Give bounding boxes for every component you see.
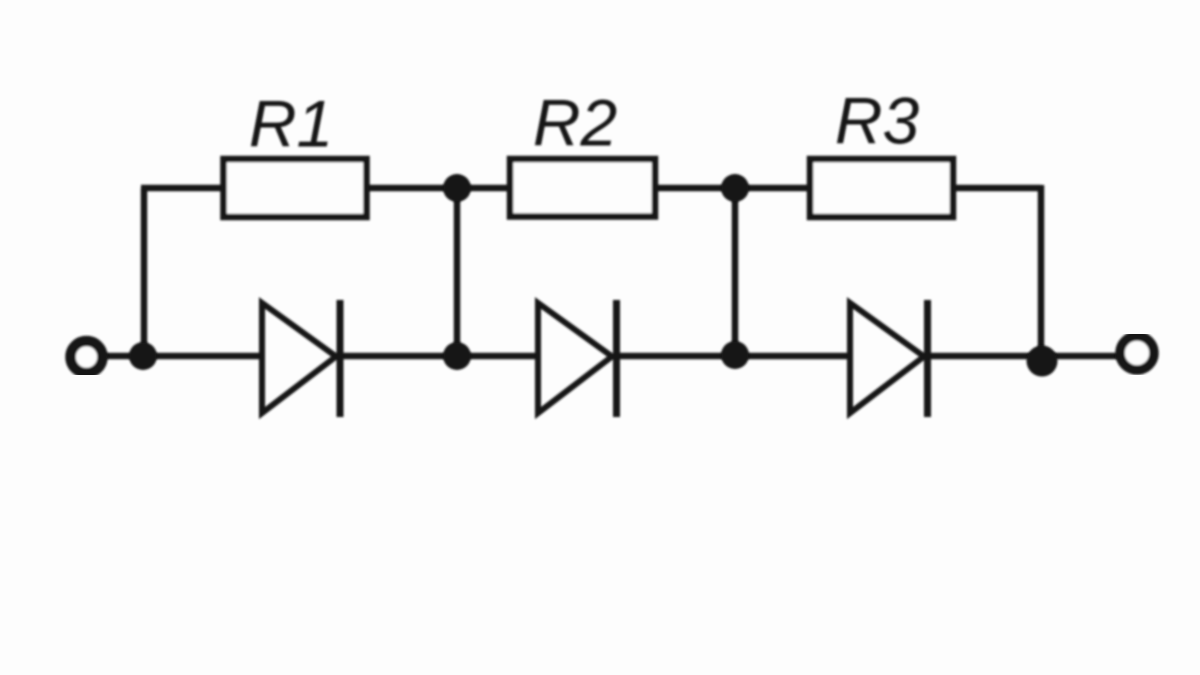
terminal right — [1120, 336, 1154, 370]
wire left riser — [141, 188, 148, 356]
svg-text:R1: R1 — [249, 87, 333, 161]
node dot top A — [443, 174, 471, 202]
wire bottom: D2 to D3 — [613, 353, 852, 360]
svg-text:R3: R3 — [835, 84, 920, 158]
wire bottom: D1 to D2 — [336, 353, 540, 360]
node dot bottom right — [1027, 346, 1058, 377]
wire R1 to R2 — [366, 185, 510, 192]
wire R3 to right corner — [953, 185, 1041, 192]
node dot bottom A — [443, 342, 471, 370]
wire bottom: terminal to D1 — [103, 353, 262, 360]
wire middle riser B — [732, 188, 739, 356]
diode D2 — [538, 303, 612, 413]
node dot bottom B — [721, 341, 749, 369]
diode D3 — [850, 303, 924, 413]
diode D1 — [262, 303, 336, 413]
wire bottom: D3 to right terminal — [925, 353, 1120, 360]
svg-text:R2: R2 — [533, 86, 617, 160]
resistor R2 — [510, 159, 655, 217]
terminal left — [71, 341, 103, 373]
wire middle riser A — [454, 188, 461, 356]
node dot bottom left — [129, 342, 157, 370]
wire right riser — [1038, 185, 1045, 356]
wire top into R1 — [141, 185, 226, 192]
resistor R1 — [224, 159, 367, 217]
resistor R3 — [810, 159, 953, 217]
node dot top B — [721, 174, 749, 202]
wire R2 to R3 — [655, 185, 810, 192]
